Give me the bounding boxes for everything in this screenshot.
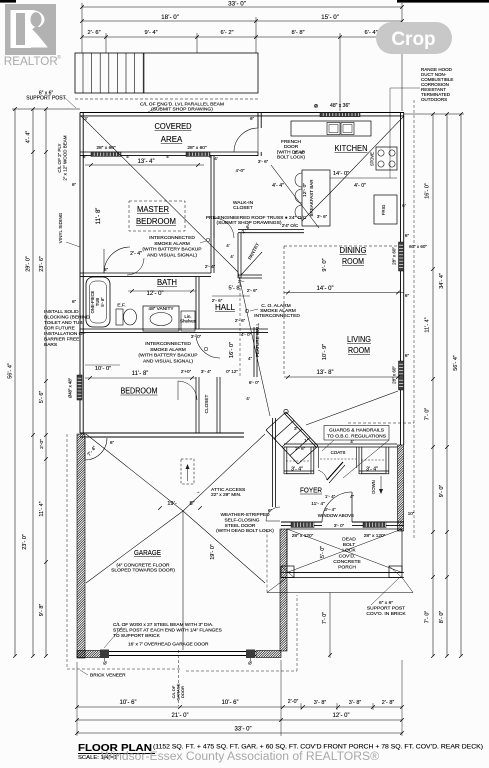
- svg-text:6”: 6”: [250, 116, 255, 121]
- svg-text:COV’D.: COV’D.: [339, 554, 356, 560]
- svg-text:DEAD: DEAD: [342, 537, 356, 543]
- svg-text:10’- 6”: 10’- 6”: [221, 700, 238, 706]
- svg-text:2’- 6”: 2’- 6”: [87, 30, 100, 36]
- svg-text:DINING: DINING: [340, 246, 367, 255]
- svg-text:(WITH BATTERY BACKUP: (WITH BATTERY BACKUP: [138, 353, 198, 359]
- svg-text:19’-: 19’-: [167, 501, 177, 507]
- svg-text:WINDOW ABOVE: WINDOW ABOVE: [318, 513, 354, 518]
- svg-text:COATS: COATS: [331, 450, 346, 455]
- svg-text:33’- 0”: 33’- 0”: [234, 727, 251, 733]
- svg-text:6”: 6”: [83, 154, 87, 159]
- svg-text:COVERED: COVERED: [155, 121, 192, 131]
- svg-text:8’- 8”: 8’- 8”: [291, 30, 304, 36]
- svg-text:3’–: 3’–: [238, 279, 245, 284]
- svg-text:LIVING: LIVING: [347, 335, 371, 344]
- svg-text:SMOKE ALARM: SMOKE ALARM: [154, 241, 190, 247]
- svg-text:SMOKE ALARM: SMOKE ALARM: [150, 347, 186, 353]
- svg-text:3’- 6”: 3’- 6”: [294, 150, 305, 155]
- svg-text:5’- 0”: 5’- 0”: [320, 546, 326, 558]
- svg-text:0” 12”: 0” 12”: [226, 369, 238, 374]
- svg-text:7’- 0”: 7’- 0”: [322, 612, 328, 624]
- svg-text:(WITH BATTERY BACKUP: (WITH BATTERY BACKUP: [142, 247, 202, 253]
- svg-text:SELF-CLOSING: SELF-CLOSING: [224, 517, 259, 523]
- svg-text:SUPPORT POST: SUPPORT POST: [26, 96, 65, 102]
- svg-text:PORCH: PORCH: [338, 565, 356, 571]
- svg-text:1’- 6”: 1’- 6”: [295, 446, 306, 451]
- svg-text:12’- 0”: 12’- 0”: [302, 183, 308, 197]
- svg-text:BOLT LOCK): BOLT LOCK): [277, 155, 305, 161]
- svg-text:SUPPORT POST: SUPPORT POST: [367, 606, 405, 612]
- svg-text:TO SUPPORT BRICK: TO SUPPORT BRICK: [113, 633, 161, 639]
- svg-text:4”: 4”: [248, 356, 253, 361]
- svg-text:10’- 6”: 10’- 6”: [119, 700, 136, 706]
- svg-text:4’: 4’: [166, 154, 169, 159]
- svg-text:12’- 0”: 12’- 0”: [332, 713, 349, 719]
- svg-text:1’: 1’: [304, 438, 308, 443]
- svg-text:INSTALLATION OF: INSTALLATION OF: [44, 331, 85, 337]
- svg-text:4’: 4’: [226, 243, 230, 248]
- svg-text:SLOPED TOWARDS DOOR): SLOPED TOWARDS DOOR): [111, 568, 175, 574]
- svg-text:3’: 3’: [84, 116, 88, 121]
- svg-text:3’- 8”: 3’- 8”: [349, 700, 362, 706]
- svg-text:13’- 8”: 13’- 8”: [316, 370, 333, 376]
- svg-text:(WITH DEAD BOLT LOCK): (WITH DEAD BOLT LOCK): [216, 528, 274, 534]
- svg-text:16’- 0”: 16’- 0”: [425, 183, 431, 199]
- svg-text:KITCHEN: KITCHEN: [335, 144, 368, 153]
- svg-text:WEATHER-STRIPPED: WEATHER-STRIPPED: [220, 512, 270, 518]
- svg-text:FOR FUTURE: FOR FUTURE: [44, 326, 75, 332]
- svg-text:8”: 8”: [189, 501, 194, 507]
- svg-text:BEDROOM: BEDROOM: [121, 386, 158, 396]
- svg-text:33’- 0”: 33’- 0”: [228, 1, 246, 8]
- svg-text:4’- 4”: 4’- 4”: [26, 131, 32, 144]
- svg-text:INTERCONNECTED: INTERCONNECTED: [254, 313, 300, 319]
- svg-text:VINYL SIDING: VINYL SIDING: [58, 212, 63, 243]
- svg-text:10’- 9”: 10’- 9”: [322, 344, 328, 360]
- svg-text:(SUBMIT SHOP DRAWING): (SUBMIT SHOP DRAWING): [151, 107, 213, 113]
- svg-text:Ø48” x 48”: Ø48” x 48”: [68, 377, 73, 398]
- svg-text:FOYER: FOYER: [300, 486, 322, 495]
- svg-text:3’- 4”: 3’- 4”: [366, 467, 378, 473]
- svg-text:3’- 8”: 3’- 8”: [314, 700, 327, 706]
- svg-text:TOILET AND TUB: TOILET AND TUB: [44, 320, 83, 326]
- svg-text:GARAGE: GARAGE: [134, 548, 161, 557]
- svg-text:3’- 0”: 3’- 0”: [191, 334, 202, 339]
- svg-text:E.F.: E.F.: [117, 303, 125, 309]
- svg-text:7’- 0”: 7’- 0”: [425, 408, 431, 421]
- svg-text:6’- 0”: 6’- 0”: [249, 380, 260, 385]
- svg-text:BATH: BATH: [157, 278, 177, 287]
- svg-text:2’- 4”: 2’- 4”: [205, 264, 216, 269]
- svg-text:C/L OF ENG’D. LVL PARALLEL BEA: C/L OF ENG’D. LVL PARALLEL BEAM: [140, 102, 224, 108]
- svg-text:12’- 0”: 12’- 0”: [146, 291, 163, 297]
- svg-text:5’- 6”: 5’- 6”: [39, 391, 45, 404]
- svg-text:BEDROOM: BEDROOM: [136, 216, 176, 226]
- svg-text:2’-0”: 2’-0”: [39, 439, 45, 449]
- svg-text:TO O.B.C. REGULATIONS: TO O.B.C. REGULATIONS: [327, 434, 387, 440]
- svg-text:14’- 0”: 14’- 0”: [333, 171, 349, 177]
- svg-text:2” x 12” WOOD BEAM: 2” x 12” WOOD BEAM: [63, 135, 68, 180]
- svg-text:Shelves: Shelves: [180, 319, 197, 324]
- svg-text:HALL: HALL: [215, 303, 236, 312]
- svg-text:9’- 0”: 9’- 0”: [439, 485, 445, 498]
- svg-text:BRICK VENEER: BRICK VENEER: [90, 673, 126, 679]
- svg-text:4’: 4’: [126, 154, 129, 159]
- svg-text:4’: 4’: [246, 396, 250, 401]
- svg-text:STOVE: STOVE: [370, 152, 375, 166]
- svg-text:48” x 36”: 48” x 36”: [330, 103, 350, 109]
- svg-text:CLOSET: CLOSET: [233, 205, 253, 211]
- svg-text:56’- 4”: 56’- 4”: [8, 363, 14, 379]
- svg-text:4’: 4’: [214, 156, 218, 161]
- svg-text:4”: 4”: [350, 494, 355, 499]
- svg-text:OUTDOORS: OUTDOORS: [421, 97, 447, 102]
- svg-text:1’- 4”: 1’- 4”: [325, 494, 336, 499]
- svg-text:3’- 4”: 3’- 4”: [291, 467, 303, 473]
- svg-text:9’- 4”: 9’- 4”: [144, 30, 157, 36]
- svg-text:2’- 8”: 2’- 8”: [382, 700, 395, 706]
- svg-text:18’- 0”: 18’- 0”: [161, 14, 179, 21]
- svg-text:8’- 0”: 8’- 0”: [439, 611, 445, 624]
- svg-text:AND VISUAL SIGNAL): AND VISUAL SIGNAL): [147, 252, 197, 258]
- svg-text:6”: 6”: [104, 267, 109, 272]
- svg-text:16’ x 7’ OVERHEAD GARAGE DOOR: 16’ x 7’ OVERHEAD GARAGE DOOR: [128, 642, 209, 648]
- svg-text:5’- 8”: 5’- 8”: [228, 286, 241, 292]
- svg-text:INSTALL SOLID: INSTALL SOLID: [44, 309, 79, 315]
- svg-text:60” x 60”: 60” x 60”: [409, 244, 427, 249]
- svg-text:STEEL DOOR: STEEL DOOR: [225, 523, 256, 529]
- svg-text:GUARDS & HANDRAILS: GUARDS & HANDRAILS: [329, 428, 385, 434]
- svg-text:BLOCKING (BEHIND: BLOCKING (BEHIND: [44, 315, 90, 321]
- svg-text:21’- 0”: 21’- 0”: [171, 713, 188, 719]
- svg-text:6”: 6”: [110, 440, 114, 445]
- svg-text:4’- 4”: 4’- 4”: [272, 183, 284, 189]
- svg-text:Ø: Ø: [103, 661, 107, 666]
- svg-text:3’– 4”: 3’– 4”: [324, 507, 336, 512]
- svg-text:6”: 6”: [405, 353, 410, 358]
- svg-text:C/L OF 2” PLY: C/L OF 2” PLY: [57, 143, 62, 172]
- svg-text:14’- 0”: 14’- 0”: [316, 286, 333, 292]
- svg-text:9’- 8”: 9’- 8”: [39, 604, 45, 617]
- svg-text:FRENCH: FRENCH: [281, 139, 301, 145]
- svg-text:(1152 SQ. FT. + 475 SQ. FT.: (1152 SQ. FT. + 475 SQ. FT. GAR. + 60 SQ…: [153, 744, 483, 751]
- svg-text:COV’D. IN BRICK: COV’D. IN BRICK: [366, 611, 406, 617]
- svg-text:6”: 6”: [72, 182, 77, 187]
- svg-text:6’- 4”: 6’- 4”: [364, 30, 377, 36]
- svg-text:11’- 8”: 11’- 8”: [96, 208, 102, 225]
- svg-text:10”: 10”: [408, 511, 415, 516]
- svg-text:6”: 6”: [268, 508, 273, 513]
- svg-text:BARRIER FREE: BARRIER FREE: [44, 337, 79, 343]
- svg-text:28” x 120”: 28” x 120”: [364, 533, 386, 539]
- svg-text:REALTOR: REALTOR: [4, 54, 58, 68]
- svg-text:INTERCONNECTED: INTERCONNECTED: [149, 235, 195, 241]
- svg-text:Ø: Ø: [315, 104, 318, 108]
- svg-text:6” x 6”: 6” x 6”: [379, 600, 393, 606]
- svg-text:29’- 0”: 29’- 0”: [26, 256, 32, 272]
- svg-text:Crop: Crop: [391, 29, 435, 50]
- svg-text:13’- 4”: 13’- 4”: [137, 159, 154, 165]
- svg-text:Ø: Ø: [248, 661, 252, 666]
- svg-text:DOOR: DOOR: [180, 686, 185, 698]
- svg-text:11’- 4”: 11’- 4”: [311, 501, 325, 507]
- svg-text:28” x 60”: 28” x 60”: [187, 145, 207, 151]
- svg-text:ROOM: ROOM: [342, 257, 364, 266]
- svg-text:15’- 0”: 15’- 0”: [321, 14, 339, 21]
- svg-text:2’-0”: 2’-0”: [288, 699, 299, 705]
- svg-text:C/L OF W200 x 27 STEEL BEAM WI: C/L OF W200 x 27 STEEL BEAM WITH 3” DIA.: [113, 622, 213, 628]
- svg-text:CONCRETE: CONCRETE: [333, 559, 361, 565]
- svg-text:5’- 8”: 5’- 8”: [100, 297, 105, 307]
- svg-text:3’- 0”: 3’- 0”: [334, 523, 345, 528]
- svg-text:4’- 0”: 4’- 0”: [354, 183, 366, 189]
- svg-text:6’- 2”: 6’- 2”: [220, 30, 233, 36]
- svg-text:Windsor-Essex County Associati: Windsor-Essex County Association of REAL…: [101, 751, 380, 763]
- svg-text:4’- 0”: 4’- 0”: [241, 332, 252, 337]
- svg-text:48” VANITY: 48” VANITY: [148, 306, 174, 312]
- svg-text:STEEL POST AT EACH END WITH 1/: STEEL POST AT EACH END WITH 1/4” FLANGES: [113, 628, 222, 634]
- svg-text:MASTER: MASTER: [137, 204, 169, 214]
- svg-text:3”: 3”: [294, 426, 299, 431]
- svg-text:16’- 0”: 16’- 0”: [229, 342, 235, 358]
- svg-text:FRIG: FRIG: [381, 204, 386, 215]
- svg-text:AND VISUAL SIGNAL): AND VISUAL SIGNAL): [143, 358, 193, 364]
- svg-text:10’- 0”: 10’- 0”: [95, 366, 111, 372]
- svg-text:7’- 0”: 7’- 0”: [425, 611, 431, 624]
- svg-text:9’- 0”: 9’- 0”: [322, 258, 328, 271]
- svg-text:BOLT: BOLT: [343, 542, 355, 548]
- svg-text:11’- 4”: 11’- 4”: [425, 317, 431, 332]
- svg-text:28” x 60”: 28” x 60”: [392, 366, 397, 384]
- svg-text:6’: 6’: [402, 203, 406, 208]
- svg-text:19’- 0”: 19’- 0”: [210, 544, 216, 560]
- svg-text:56’- 4”: 56’- 4”: [453, 355, 459, 371]
- svg-text:22” x 28” MIN.: 22” x 28” MIN.: [211, 492, 241, 498]
- svg-text:2’- 6”: 2’- 6”: [247, 288, 258, 293]
- svg-text:3’- 6”: 3’- 6”: [258, 159, 269, 164]
- svg-text:4’: 4’: [230, 254, 234, 259]
- svg-text:23’- 6”: 23’- 6”: [39, 256, 45, 272]
- svg-text:4’-0”: 4’-0”: [235, 168, 245, 173]
- svg-text:3’- 6”: 3’- 6”: [317, 214, 328, 219]
- svg-text:AREA: AREA: [161, 134, 183, 144]
- svg-text:2’4” O/C: 2’4” O/C: [282, 223, 298, 228]
- svg-text:6”: 6”: [72, 299, 77, 304]
- svg-text:→: →: [196, 489, 200, 494]
- svg-text:BREAKFAST BAR: BREAKFAST BAR: [309, 179, 314, 217]
- svg-text:11’- 8”: 11’- 8”: [132, 371, 149, 377]
- svg-text:CLOSET: CLOSET: [204, 395, 209, 414]
- svg-text:11’- 4”: 11’- 4”: [39, 501, 45, 516]
- svg-text:INTERCONNECTED: INTERCONNECTED: [145, 341, 191, 347]
- svg-text:DOWN: DOWN: [371, 480, 376, 493]
- svg-text:6”: 6”: [405, 233, 410, 238]
- svg-text:4’: 4’: [350, 439, 354, 444]
- svg-text:2’- 6”: 2’- 6”: [212, 298, 223, 303]
- svg-text:2’+0”: 2’+0”: [181, 369, 192, 374]
- svg-text:6”: 6”: [405, 293, 410, 298]
- svg-text:23’- 0”: 23’- 0”: [22, 534, 28, 550]
- svg-text:ROOM: ROOM: [348, 346, 370, 355]
- svg-text:2’- 6”: 2’- 6”: [235, 318, 246, 323]
- svg-text:28” x 60”: 28” x 60”: [392, 247, 397, 265]
- svg-text:34’- 4”: 34’- 4”: [439, 273, 445, 289]
- svg-text:2’- 4”: 2’- 4”: [130, 251, 142, 257]
- svg-text:3’- 4”: 3’- 4”: [201, 369, 212, 374]
